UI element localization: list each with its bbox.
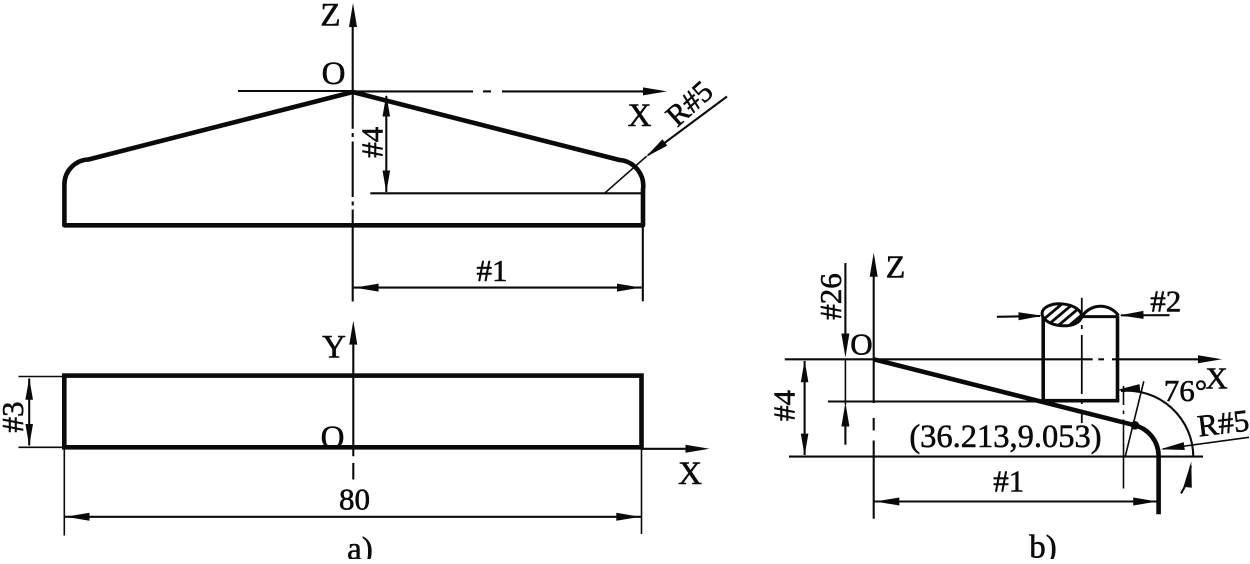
workpiece sloped profile (section view, thick) bbox=[874, 359, 1159, 514]
hatched ball section ellipse (section view) bbox=[1039, 301, 1087, 333]
svg-text:#4: #4 bbox=[354, 126, 389, 158]
radius R#5 leader (front view) bbox=[648, 97, 727, 156]
dimension #4 line (section view) bbox=[804, 361, 806, 455]
svg-text:Y: Y bbox=[322, 330, 346, 366]
ball-end cutter top arc (section view) bbox=[1082, 306, 1119, 316]
tangent point dot (36.213,9.053) bbox=[1131, 421, 1140, 430]
dimension #1 line (section view) bbox=[874, 500, 1158, 502]
ball-end cutter top edge (section view) bbox=[1082, 315, 1118, 318]
svg-text:Z: Z bbox=[886, 249, 906, 285]
X axis (section view) bbox=[785, 358, 1093, 360]
svg-text:R#5: R#5 bbox=[659, 74, 720, 133]
dimension #26 line with outside arrows (section view) bbox=[844, 263, 846, 338]
svg-text:#2: #2 bbox=[1150, 284, 1181, 319]
svg-text:O: O bbox=[321, 420, 345, 456]
svg-text:X: X bbox=[678, 456, 702, 492]
Z axis of front view a) bbox=[349, 3, 357, 27]
svg-text:76°: 76° bbox=[1164, 373, 1207, 408]
svg-text:Z: Z bbox=[320, 0, 340, 34]
svg-text:#26: #26 bbox=[813, 273, 848, 320]
X axis left segment (front view) bbox=[238, 90, 353, 92]
svg-text:80: 80 bbox=[339, 481, 370, 516]
dimension #2 arrows (section view) bbox=[997, 315, 1040, 318]
part outline (front view, thick) bbox=[64, 92, 643, 225]
svg-text:(36.213,9.053): (36.213,9.053) bbox=[909, 419, 1101, 455]
plate rectangle outline (plan view, thick) bbox=[64, 376, 641, 448]
svg-text:#4: #4 bbox=[767, 390, 802, 422]
dimension #1 line (front view) bbox=[354, 287, 642, 289]
76 degree angle lower arrow (section view) bbox=[1181, 466, 1191, 494]
base top edge line (front view) bbox=[370, 192, 642, 194]
dimension #1 extension line (front view) bbox=[642, 225, 644, 301]
svg-text:X: X bbox=[1205, 361, 1227, 396]
X axis dash-dot line (front view) bbox=[353, 90, 473, 92]
depth reference line (section view) bbox=[828, 400, 1118, 402]
radius R#5 leader (section view) bbox=[1163, 437, 1249, 449]
dimension #4 (front view) bbox=[385, 96, 387, 192]
svg-text:O: O bbox=[850, 327, 872, 362]
bottom reference line (section view) bbox=[789, 456, 1203, 458]
dimension #3 extension lines (plan view) bbox=[19, 376, 63, 378]
dimension 80 extension lines (plan view) bbox=[63, 450, 65, 536]
svg-text:a): a) bbox=[347, 532, 373, 560]
Y axis (plan view) bbox=[349, 321, 357, 345]
ball-end cutter body left edge (section view) bbox=[1041, 314, 1045, 401]
svg-text:#1: #1 bbox=[993, 464, 1024, 499]
76 degree angle arc (section view) bbox=[1121, 391, 1193, 457]
normal line through tangent point (section view) bbox=[1125, 381, 1144, 456]
svg-text:#3: #3 bbox=[0, 402, 30, 433]
svg-text:b): b) bbox=[1029, 530, 1057, 560]
ball-end cutter bottom edge (section view) bbox=[1042, 399, 1120, 403]
svg-text:#1: #1 bbox=[477, 253, 508, 288]
X axis (plan view) bbox=[642, 448, 691, 450]
dimension #3 line (plan view) bbox=[28, 379, 30, 446]
ball-end cutter body right edge (section view) bbox=[1116, 316, 1120, 401]
Z axis (section view b) bbox=[870, 253, 878, 277]
svg-text:O: O bbox=[322, 56, 346, 92]
dimension 80 line (plan view) bbox=[64, 516, 641, 518]
svg-text:X: X bbox=[628, 98, 652, 134]
vertical dash-dot line at tangency (section view) bbox=[1123, 386, 1125, 405]
cutter centre dash-dot line (section view) bbox=[1081, 298, 1083, 319]
svg-text:R#5: R#5 bbox=[1195, 403, 1250, 444]
